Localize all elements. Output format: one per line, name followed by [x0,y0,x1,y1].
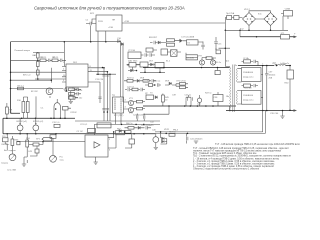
capacitor C19 [54,124,60,127]
svg-text:Пр1 25А: Пр1 25А [226,12,235,15]
capacitor C15 [215,37,217,50]
cluster C16 VD5 [117,38,124,49]
svg-text:К1.1: К1.1 [166,60,171,62]
svg-text:DA1 7815: DA1 7815 [128,59,138,62]
svg-text:3Т2 (ТГР): 3Т2 (ТГР) [114,115,124,117]
driver sub-cluster VT3 [127,63,141,73]
capacitor C1 at aux input [86,20,92,26]
svg-text:С17 0,1х400В: С17 0,1х400В [181,37,195,39]
svg-text:С43: С43 [28,151,33,153]
svg-text:С39 С40: С39 С40 [270,113,279,115]
stabilizer block U2 [128,50,151,59]
resistor column R4 [37,53,40,75]
svg-text:R36 газ: R36 газ [153,80,160,82]
svg-text:С13 С14: С13 С14 [95,79,104,81]
svg-text:R51 5Вт: R51 5Вт [244,87,252,89]
svg-text:ВУ 202: ВУ 202 [31,91,39,93]
lower cluster row2 [146,48,181,56]
wire fuse to bridge [225,17,242,19]
svg-text:Тр1: Тр1 [226,61,230,63]
node verticals [98,31,110,121]
svg-text:VT1: VT1 [129,98,134,100]
wire mid2 [11,68,52,83]
cap C43 [28,146,39,157]
transformer core [233,65,234,113]
parts right of u4 [119,130,135,149]
wire u4 right stubs [108,132,116,148]
svg-text:1: 1 [63,62,65,64]
svg-text:КУ202: КУ202 [71,112,78,114]
svg-text:6: 6 [109,150,111,152]
svg-text:С21 0,1: С21 0,1 [80,124,88,126]
svg-text:Плавный запуск: Плавный запуск [15,49,31,52]
pot current Рег.тока [50,138,65,162]
wire mid3 [11,88,64,90]
svg-text:С1: С1 [86,20,90,22]
extra value labels [63,13,289,152]
box K1 contact [216,50,221,54]
wire from aux drop [216,30,230,66]
output minus bus with arrow [226,110,294,112]
svg-text:С22 0,1: С22 0,1 [127,87,135,89]
wire bridge tops [249,11,271,13]
dc bus to output arrow [240,36,294,38]
wire u4 top [93,124,95,135]
wire bus down to transformer [239,30,241,37]
capacitor C14 [202,42,204,50]
capacitor C3 [49,59,50,62]
svg-text:4: 4 [125,107,127,109]
output plus bus [238,65,291,67]
snubber block [186,55,198,60]
svg-text:3в: 3в [235,65,238,67]
svg-text:С42: С42 [150,122,155,124]
resistor row mid [125,125,155,130]
wire bridge bottoms to bus [249,19,271,30]
svg-text:25В: 25В [269,77,273,79]
wire u4 left [70,141,85,143]
svg-text:ТчТ - 128 витков провода ПЭВ-2: ТчТ - 128 витков провода ПЭВ-2 0,25 на м… [215,143,300,146]
svg-text:Вкл. подачи: Вкл. подачи [4,150,16,152]
svg-text:220V: 220V [98,21,103,23]
svg-text:R56: R56 [26,138,31,140]
resistor R57 [169,132,177,137]
relay box on bus [50,135,56,139]
thyristor VS2 stud [17,118,23,134]
resistor R2 [52,57,58,62]
svg-text:R66: R66 [15,139,20,141]
secondary winding upper [237,68,238,82]
svg-text:R3 11: R3 11 [41,57,47,59]
svg-text:+15В: +15В [108,27,114,29]
primary bottom wire [225,66,229,111]
bus under bridges [225,29,288,31]
AC input: switch SA1 [234,16,239,20]
wire aux output right to AC section [122,22,225,24]
svg-text:VD7: VD7 [149,60,154,62]
svg-text:R5 11: R5 11 [53,57,59,59]
resistor R45 [162,95,170,102]
wire top frame [11,42,121,67]
svg-text:С41 2200х25: С41 2200х25 [190,139,203,141]
svg-text:тока: тока [60,159,65,161]
diode pair VD20 [161,132,167,144]
junction dots on top rail [64,41,66,43]
ground right [194,141,198,143]
switch box [2,136,21,146]
svg-text:Т3: Т3 [150,92,153,94]
svg-text:БП1: БП1 [90,13,95,15]
wires into T2 [121,49,124,97]
cap C41 [187,133,204,143]
current transformer T3 [145,93,158,100]
wire secondaries to modules [238,68,242,104]
svg-text:+: + [262,63,264,65]
potentiometer R regulir [9,148,16,161]
svg-text:16: 16 [63,75,66,77]
svg-text:С16: С16 [117,38,122,40]
ground at output [282,111,284,117]
svg-text:2: 2 [109,139,111,141]
svg-text:С25 1н: С25 1н [185,95,192,97]
choke L1 Др1 [273,63,286,66]
resistor R11 [26,102,29,113]
snubber R-C lower [242,84,259,87]
caps row lower [128,88,142,91]
bleeder resistor R50 [285,66,294,111]
junction dots on rectifier bus [248,30,250,32]
transistor VT11 [197,95,201,106]
svg-text:R7 5,1: R7 5,1 [18,85,25,87]
transistor VT1 (can) [46,88,53,95]
resistor R55 [29,143,43,146]
svg-text:5: 5 [63,80,65,82]
svg-text:L=80мкГн: L=80мкГн [280,63,289,65]
svg-text:С38: С38 [214,97,219,99]
AC input: fuse FU1 [227,16,232,20]
svg-text:R24 51: R24 51 [127,78,135,80]
wire X1 down [281,14,288,31]
svg-text:Обмотка 2 подключается встречн: Обмотка 2 подключается встречно относите… [193,168,260,171]
svg-text:R57 10: R57 10 [169,132,177,134]
svg-text:R47 1к: R47 1к [205,92,212,94]
svg-text:К1: К1 [188,43,191,45]
svg-text:Сеть 36В: Сеть 36В [7,170,17,172]
svg-text:С39: С39 [172,95,177,97]
mains connector X1 [284,9,293,16]
svg-text:ОУ1 СТ10: ОУ1 СТ10 [176,80,186,82]
caps on aux rails C10 C11 [66,87,82,104]
svg-text:(возд.охл.): (возд.охл.) [243,77,254,79]
svg-text:R60 1к: R60 1к [126,123,133,125]
resistor Rt [26,140,29,147]
opto box [116,130,125,134]
feedback parts under bus [144,80,188,88]
transformer T2 ТГР [113,95,124,113]
secondary winding lower [237,91,238,105]
snubber R-C upper [242,58,259,66]
output capacitor C37 [265,66,276,111]
svg-text:СУ ОС: СУ ОС [77,131,84,133]
meter PA1 [153,133,159,147]
svg-text:С23 10х25: С23 10х25 [133,115,144,117]
resistor R12 cluster [69,88,79,100]
svg-text:10000х: 10000х [269,75,277,77]
svg-text:ДТ: ДТ [145,93,148,95]
svg-text:~220В: ~220В [284,9,291,11]
svg-text:ВУ5 1,0: ВУ5 1,0 [23,75,31,77]
svg-text:С1.: С1. [41,107,45,109]
pin stubs left [62,67,66,83]
bridge rectifier VD2 [264,13,277,26]
snubber C38 [213,95,223,102]
svg-text:СТ 15В: СТ 15В [128,50,136,52]
shunt amplifier U4 [85,135,108,157]
svg-text:ВУ6 ВУ7: ВУ6 ВУ7 [149,37,158,39]
wire module outputs join [261,66,263,111]
svg-text:Кл1: Кл1 [258,14,262,16]
svg-text:VT9: VT9 [198,56,203,58]
svg-text:VD21: VD21 [164,129,170,131]
svg-text:+15В: +15В [124,21,130,23]
bus y79 [35,78,66,80]
bridge rectifier VD1 [243,13,256,26]
svg-text:ПН: ПН [112,20,115,22]
wire RC chain [11,59,67,61]
svg-text:Рег.: Рег. [60,157,64,159]
svg-text:КУ202 (х2): КУ202 (х2) [33,121,43,123]
lower control bus [3,133,155,135]
svg-text:150EBU04: 150EBU04 [243,72,254,74]
upper control bus left [3,113,75,134]
aux power supply module U5 [96,15,122,31]
op-amp triangle [94,142,100,148]
wire aux bottom down [105,31,107,42]
resistor row R24 [127,79,153,82]
snubber C30 on bus [215,62,222,75]
svg-text:(возд.охл.): (возд.охл.) [243,100,254,102]
svg-text:РМ-3: РМ-3 [173,130,179,132]
svg-text:R8: R8 [10,110,14,112]
wire aux left down [86,19,96,42]
svg-text:10: 10 [165,100,168,102]
driver cluster VT4 VT5 [140,62,164,68]
svg-text:3: 3 [125,100,127,102]
svg-text:ВУ202 (х2): ВУ202 (х2) [17,121,28,123]
svg-text:R10: R10 [17,100,22,102]
svg-text:VD1,2: VD1,2 [244,9,251,11]
svg-text:150EBU04: 150EBU04 [243,95,254,97]
svg-text:ХР1: ХР1 [36,139,41,141]
IGBT VT10 [206,57,216,65]
node bus left vertical [10,42,12,114]
caps C23 C24 [133,114,145,122]
capacitor C4 [61,59,62,62]
resistor R8 left column [6,103,14,118]
svg-text:R 5Вт: R 5Вт [244,58,250,60]
resistor R7 [18,85,25,89]
pin stubs right [88,68,107,92]
wire drop at x225 [224,18,226,31]
ground u4 [95,157,97,162]
feedback box2 [77,129,96,133]
thyristor cluster VS1 [54,103,68,110]
wire vt2 down [36,96,50,118]
svg-text:С19 1,0: С19 1,0 [52,122,60,124]
resistor R1 [40,57,46,62]
connector XP1 [36,137,52,141]
feedback box [80,123,111,128]
svg-text:Сварочный источник для ручной: Сварочный источник для ручной и полуавто… [34,6,185,11]
thyristor VS3 stud [33,118,39,134]
wire mid1 [11,71,67,73]
transformer T1 primary winding [226,61,231,112]
primary bus y106 [143,105,236,107]
wire branch down-left [143,106,169,114]
caps C25 C26 [172,95,192,107]
svg-text:Сварка: Сварка [1,163,9,165]
ground [63,89,67,91]
svg-text:R50: R50 [285,83,290,85]
svg-text:С37: С37 [269,72,274,74]
resistor R10 [17,100,25,113]
op-amp U1 DD1 TL494 [66,62,88,92]
svg-text:С40: С40 [152,130,157,132]
svg-text:С26: С26 [197,104,202,106]
svg-text:+: + [294,33,296,36]
mid rails [75,121,160,124]
ground left [26,134,28,163]
svg-text:С15: С15 [218,44,223,46]
sense pair down [155,111,265,134]
rectifier module VD10 [241,68,261,82]
main mid bus y67.5 [143,67,230,69]
thermal relay K1 [281,33,290,39]
arrow terminal [294,36,298,39]
IGBT VT9 [198,56,205,66]
push-pull transistors VT6 VT7 [128,100,142,112]
svg-text:С41 2200х25: С41 2200х25 [141,125,154,127]
rectifier module VD11 [241,91,261,105]
components row above y42 [149,37,222,50]
